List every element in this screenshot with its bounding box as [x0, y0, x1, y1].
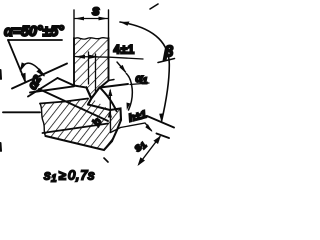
root V right arm: [91, 88, 99, 99]
4±1 dimension/leader line: [75, 57, 144, 60]
svg-text:s: s: [92, 2, 100, 18]
extreme position line L5 lower: [157, 134, 170, 139]
alternate position line L4: [39, 89, 108, 121]
4±1 extension line B: [95, 54, 97, 92]
svg-text:β: β: [163, 44, 173, 61]
alternate position face to corner: [58, 78, 75, 86]
s dimension arrow right: [99, 17, 109, 21]
svg-text:α1: α1: [136, 73, 148, 86]
left edge stray mark upper: [0, 70, 2, 79]
beta arc top arrow: [120, 22, 130, 26]
bottom stray mark: [104, 158, 108, 162]
h leader arrow: [145, 124, 152, 132]
beta tick line: [158, 59, 175, 63]
root V left arm: [86, 87, 91, 98]
weld face line F1: [100, 87, 117, 111]
plate 1 (vertical plate, thickness s) hatched body: [74, 38, 109, 99]
chamfer end tick: [109, 80, 115, 81]
left edge stray mark lower: [0, 143, 2, 151]
plate 2 inner bottom line (alt position): [43, 124, 109, 134]
alpha1 arc arrow: [127, 103, 131, 111]
alpha1 leader: [130, 83, 149, 85]
4±1 extension line A: [88, 52, 90, 84]
h up arrow top: [108, 89, 112, 97]
plate 1 right edge: [108, 38, 110, 81]
alpha2 arc arrow upper: [20, 62, 26, 71]
h leader: [111, 123, 152, 133]
svg-text:s1: s1: [132, 138, 149, 155]
s dimension right extension line: [108, 10, 110, 38]
s1 arrowhead top: [153, 136, 161, 145]
plate 2 lower bottom edge: [46, 136, 113, 150]
plate 1 bottom edge left: [74, 86, 85, 88]
alpha1 arrow: [117, 62, 126, 72]
plate 2 bevel edge: [88, 105, 110, 111]
4±1 arrow left: [75, 55, 86, 59]
h dimension vertical shaft: [109, 91, 111, 133]
alpha leader horizontal: [8, 39, 62, 41]
plate 1 top break line (wavy): [74, 38, 109, 40]
alternate position lower face L3: [28, 78, 58, 97]
plate 2 end face: [110, 109, 121, 142]
s dimension line: [75, 18, 109, 20]
alternate position upper face D2: [12, 64, 67, 89]
s1 arrow shaft: [139, 137, 160, 165]
4±1 arrow right: [89, 55, 100, 59]
plate 2 (inclined plate) hatched body: [40, 98, 121, 150]
plate 1 bottom right chamfer: [100, 81, 109, 88]
left leader to plate 2: [3, 111, 40, 113]
svg-text:h±1: h±1: [127, 108, 148, 124]
plate 2 left break edge (wavy): [40, 104, 46, 137]
h up arrow mid: [108, 110, 112, 118]
plate 2 bevel face: [88, 99, 91, 105]
svg-text:4±1: 4±1: [114, 45, 136, 57]
plate 2 top edge: [40, 99, 88, 104]
alpha1 arc: [126, 74, 132, 111]
beta arc bottom arrow: [159, 113, 163, 122]
plate 1 left edge: [73, 38, 75, 86]
top right stray mark: [150, 4, 158, 9]
s1 arrowhead bottom: [138, 157, 146, 166]
beta arc: [120, 22, 169, 122]
alpha leader diagonal: [8, 40, 25, 81]
s dimension left extension line: [73, 10, 75, 38]
alpha2 arc arrow lower: [36, 68, 44, 76]
alpha1 arrowhead: [119, 65, 126, 73]
near-horizontal alt top line: [30, 86, 74, 92]
weld top line Lw: [100, 84, 128, 88]
svg-text:α=50°±5°: α=50°±5°: [4, 24, 64, 40]
svg-text:s1≥0,7s: s1≥0,7s: [44, 168, 95, 185]
extreme position line L5 upper: [147, 116, 174, 128]
s dimension arrow left: [75, 17, 85, 21]
alpha leader arrow: [21, 73, 26, 84]
alpha2 arc: [21, 63, 45, 75]
